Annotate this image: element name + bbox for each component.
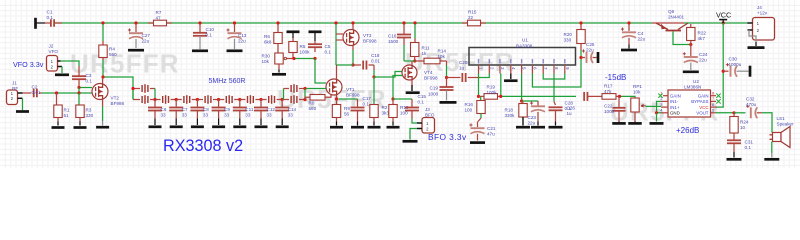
transistor VT3 <box>343 30 359 46</box>
svg-text:100k: 100k <box>487 90 498 95</box>
ground R9 <box>330 126 343 129</box>
svg-text:BFO: BFO <box>425 113 435 118</box>
ground R1 <box>52 126 65 129</box>
crystal ZQ series 6 <box>261 99 267 101</box>
node junction R4 top <box>101 21 104 24</box>
resistor R10 <box>392 99 394 105</box>
wire Q6 base <box>673 32 691 45</box>
ground VT4 <box>406 91 420 94</box>
capacitor C30 <box>723 70 728 72</box>
svg-text:C13: C13 <box>238 33 247 38</box>
ground C4 <box>621 49 637 52</box>
svg-text:C9: C9 <box>224 107 230 112</box>
svg-text:0.1: 0.1 <box>565 106 572 111</box>
op-amp U1 BA3308 <box>469 48 576 66</box>
svg-text:GAIN: GAIN <box>670 93 681 98</box>
terminal C30 <box>749 66 752 77</box>
svg-text:R4: R4 <box>109 47 115 52</box>
svg-text:C24: C24 <box>699 52 708 57</box>
svg-text:33: 33 <box>267 113 273 118</box>
ground C9 <box>212 125 225 128</box>
node junction U2 gnd <box>655 111 658 114</box>
capacitor C32 <box>750 107 752 118</box>
svg-text:C21: C21 <box>487 126 496 131</box>
trimmer R30 <box>275 53 283 64</box>
svg-text:33: 33 <box>203 113 209 118</box>
wire VT1 drain <box>336 65 338 79</box>
wire VT2 source to ground <box>102 100 104 107</box>
svg-text:J1: J1 <box>12 80 17 85</box>
svg-text:22u: 22u <box>638 37 646 42</box>
pin 2 U2 <box>661 100 668 102</box>
resistor R8 <box>305 97 310 99</box>
resistor R1 <box>56 93 58 105</box>
crystal ZQ series 4 <box>219 99 225 101</box>
node junction VT4 drain <box>413 59 416 62</box>
ground C13 <box>227 49 243 52</box>
ground J2 <box>55 73 69 76</box>
ground C12 <box>255 125 268 128</box>
ground inverted R5 <box>287 30 300 33</box>
pin 1 U1 <box>478 65 480 74</box>
svg-text:VOUT: VOUT <box>696 111 709 116</box>
terminal C25 <box>597 52 600 63</box>
svg-text:J4: J4 <box>757 5 762 10</box>
svg-text:33: 33 <box>245 113 251 118</box>
svg-text:C12: C12 <box>267 107 276 112</box>
svg-text:VFO 3.3v: VFO 3.3v <box>13 60 44 69</box>
ground C21 <box>470 141 485 144</box>
ground R3 <box>74 126 87 129</box>
wire bias to filter input <box>105 77 134 100</box>
svg-text:1u: 1u <box>459 66 465 71</box>
svg-text:U1: U1 <box>522 38 528 43</box>
svg-text:R11: R11 <box>422 46 431 51</box>
pin 5 U1 <box>521 65 523 74</box>
svg-text:J3: J3 <box>425 107 430 112</box>
node junction filter 2 <box>175 98 178 101</box>
node junction R11 top <box>413 21 416 24</box>
svg-text:0.1: 0.1 <box>418 100 425 105</box>
capacitor C15 <box>393 98 412 100</box>
node junction R20 top <box>579 21 582 24</box>
svg-text:330k: 330k <box>505 113 516 118</box>
svg-text:R30: R30 <box>262 54 271 59</box>
svg-text:100: 100 <box>465 107 473 112</box>
svg-text:33: 33 <box>288 113 294 118</box>
svg-text:C15: C15 <box>418 94 427 99</box>
wire signal to VT2 <box>42 92 92 94</box>
ground C8 <box>191 125 204 128</box>
wire bias node <box>295 58 315 60</box>
pin 9 U1 <box>564 65 566 74</box>
pin 8 U1 <box>553 65 555 74</box>
capacitor C27 <box>135 24 137 32</box>
svg-text:47u: 47u <box>487 132 495 137</box>
svg-text:C10: C10 <box>206 27 215 32</box>
capacitor C23 <box>522 100 538 102</box>
resistor R15 <box>468 20 481 26</box>
svg-text:C19: C19 <box>430 86 439 91</box>
svg-text:C16: C16 <box>388 34 397 39</box>
wire VT2 gate2 <box>81 87 93 89</box>
svg-text:LM386N: LM386N <box>684 85 701 90</box>
ground C24 <box>683 70 699 73</box>
svg-text:IN1+: IN1+ <box>670 105 680 110</box>
svg-text:R15: R15 <box>468 10 477 15</box>
svg-text:RF: RF <box>12 86 18 91</box>
wire C32 to speaker <box>762 113 772 133</box>
svg-text:C1: C1 <box>47 10 53 15</box>
svg-text:22u: 22u <box>586 48 594 53</box>
svg-text:GND: GND <box>670 111 680 116</box>
svg-text:C7: C7 <box>182 107 188 112</box>
wire VT3 drain <box>352 24 354 30</box>
svg-text:BF998: BF998 <box>111 101 125 106</box>
svg-text:BFO 3.3v: BFO 3.3v <box>428 132 467 142</box>
svg-text:R16: R16 <box>465 102 474 107</box>
svg-text:2N4401: 2N4401 <box>668 15 685 20</box>
svg-text:R5: R5 <box>300 44 306 49</box>
wire VOUT <box>716 112 735 114</box>
svg-text:C8: C8 <box>203 107 209 112</box>
ground LS1 <box>764 158 779 161</box>
svg-text:0.1: 0.1 <box>206 33 213 38</box>
svg-text:0.1: 0.1 <box>363 102 370 107</box>
svg-text:VCC: VCC <box>716 11 731 20</box>
svg-text:0.1: 0.1 <box>325 50 332 55</box>
svg-text:33: 33 <box>182 113 188 118</box>
svg-text:1u: 1u <box>567 111 573 116</box>
ground C26 <box>549 126 563 129</box>
wire J2 pin2 to ground <box>58 66 63 68</box>
svg-text:BA3308: BA3308 <box>516 43 533 48</box>
connector J4 <box>753 18 775 41</box>
svg-text:VT4: VT4 <box>424 70 433 75</box>
svg-text:R6: R6 <box>264 34 270 39</box>
wire filter top row <box>133 88 140 90</box>
capacitor C4 <box>628 24 630 31</box>
capacitor C9 <box>218 100 220 108</box>
svg-text:BF998: BF998 <box>363 39 377 44</box>
speaker LS1 <box>770 135 773 140</box>
pin 4 U1 <box>510 65 512 74</box>
ground C31 <box>727 158 742 161</box>
svg-text:470u: 470u <box>746 102 757 107</box>
capacitor C13 <box>234 24 236 32</box>
resistor R14 <box>415 60 424 62</box>
node junction R10 C15 <box>391 97 394 100</box>
svg-text:R9: R9 <box>344 106 350 111</box>
svg-text:10k: 10k <box>633 89 641 94</box>
resistor R11 <box>414 24 416 39</box>
crystal ZQ bottom-right <box>291 95 297 104</box>
wire U2 IN1- GND tie to ground <box>657 101 662 112</box>
svg-text:R2: R2 <box>382 105 388 110</box>
connector J3 BFO <box>422 118 435 134</box>
svg-text:22u: 22u <box>142 39 150 44</box>
svg-text:BF998: BF998 <box>346 93 360 98</box>
node junction filter 1 <box>153 98 156 101</box>
ground inverted C5 <box>309 30 322 33</box>
svg-text:1000: 1000 <box>604 109 615 114</box>
svg-text:3k3: 3k3 <box>382 111 390 116</box>
wire J3 pin2 to ground <box>410 129 417 140</box>
crystal ZQ top-right <box>291 84 297 93</box>
svg-text:330: 330 <box>564 38 572 43</box>
transistor VT2 <box>92 84 108 100</box>
potentiometer RP1 <box>621 96 635 98</box>
svg-text:51: 51 <box>64 113 70 118</box>
wire VT2 drain <box>102 77 104 84</box>
capacitor C14 <box>281 100 283 108</box>
node junction R30 wiper <box>292 57 295 60</box>
svg-text:C23: C23 <box>528 115 537 120</box>
pin 1 U2 <box>663 95 668 97</box>
pin 7 U1 <box>542 65 544 74</box>
node junction R6 top <box>276 21 279 24</box>
node junction VT2 drain <box>101 75 104 78</box>
svg-text:1000u: 1000u <box>729 62 742 67</box>
pin 4 U2 <box>661 112 668 114</box>
wire VT3 gate bias <box>335 24 337 65</box>
wire U1 pin6 AGC <box>532 59 581 88</box>
wire filter vertical right <box>283 89 285 100</box>
svg-text:560: 560 <box>309 106 317 111</box>
wire filter output pair <box>282 99 289 101</box>
svg-text:C31: C31 <box>745 140 754 145</box>
svg-text:6k8: 6k8 <box>264 40 272 45</box>
pin 8 U2 <box>711 95 717 97</box>
node junction C27 top <box>134 21 137 24</box>
svg-text:VFO: VFO <box>49 49 59 54</box>
svg-text:BF998: BF998 <box>424 75 438 80</box>
ground J3 <box>403 140 418 143</box>
wire <box>336 64 353 66</box>
ground C19 <box>440 101 457 104</box>
capacitor C20 <box>447 77 461 79</box>
svg-text:R8: R8 <box>309 101 315 106</box>
svg-text:C32: C32 <box>746 97 755 102</box>
resistor R17 <box>602 94 616 100</box>
svg-text:0.1: 0.1 <box>745 145 752 150</box>
ground RP1 <box>628 122 642 125</box>
wire VT1 gate1 <box>307 88 327 90</box>
svg-text:C28: C28 <box>565 101 574 106</box>
resistor R3 <box>78 93 80 105</box>
svg-text:10: 10 <box>740 125 746 130</box>
wire to VT1 gate2 <box>315 59 326 84</box>
wire U1 pin1 to R19 <box>478 74 480 97</box>
svg-text:22: 22 <box>468 15 474 20</box>
node junction VT1 source <box>335 97 338 100</box>
capacitor C2 <box>23 92 32 94</box>
svg-text:R19: R19 <box>487 84 496 89</box>
node junction R3 <box>77 91 80 94</box>
transistor VT1 <box>326 79 342 95</box>
connector J1 RF <box>7 90 18 105</box>
crystal ZQ top-left <box>142 84 148 93</box>
svg-text:56: 56 <box>344 112 350 117</box>
svg-text:RX3308 v2: RX3308 v2 <box>163 137 243 155</box>
node junction filter out bottom <box>303 98 306 101</box>
svg-text:10k: 10k <box>438 54 446 59</box>
svg-text:10k: 10k <box>262 59 270 64</box>
svg-text:IN1-: IN1- <box>670 99 679 104</box>
node junction VT3 source C18 <box>351 63 354 66</box>
svg-text:R3: R3 <box>86 108 92 113</box>
svg-text:R24: R24 <box>740 120 749 125</box>
crystal ZQ series 3 <box>197 99 203 101</box>
svg-text:33: 33 <box>224 113 230 118</box>
resistor R4 <box>102 24 104 41</box>
crystal ZQ series 5 <box>240 99 246 101</box>
svg-text:C17: C17 <box>363 96 372 101</box>
resistor R16 <box>480 96 482 100</box>
capacitor C6 <box>154 100 156 108</box>
wire VT4 source to ground <box>411 80 413 85</box>
wire VCC feed down <box>717 23 724 107</box>
ground J4 <box>748 46 765 49</box>
svg-text:0.01: 0.01 <box>32 90 41 95</box>
node junction C16 top <box>402 21 405 24</box>
node junction R1 <box>55 91 58 94</box>
svg-text:VT2: VT2 <box>111 96 120 101</box>
svg-text:R17: R17 <box>604 84 613 89</box>
wire RP1 wiper to U2 <box>646 105 662 107</box>
wire U1 pin3 to R19 <box>500 74 502 97</box>
node junction C10 top <box>198 21 201 24</box>
svg-text:GAIN: GAIN <box>698 93 709 98</box>
node junction C3 VT2 gate2 <box>77 86 80 89</box>
node junction VCC symbol <box>722 21 725 24</box>
wire <box>37 22 46 24</box>
ground C7 <box>170 125 183 128</box>
svg-text:33: 33 <box>161 113 167 118</box>
node junction C4 top <box>627 21 630 24</box>
svg-text:C5: C5 <box>325 44 331 49</box>
resistor R18 <box>522 101 524 104</box>
node junction R17 C22 RP1 <box>618 95 621 98</box>
svg-text:47k: 47k <box>604 89 612 94</box>
capacitor C24 <box>690 45 692 57</box>
node junction filter 5 <box>238 98 241 101</box>
capacitor C5 <box>314 41 316 44</box>
node junction R20 C25 <box>579 56 582 59</box>
svg-text:22u: 22u <box>699 58 707 63</box>
wire C15 to J3 <box>412 119 417 124</box>
wire VT1 source <box>336 95 338 99</box>
op-amp U2 LM386N <box>668 90 711 117</box>
svg-text:-15dB: -15dB <box>605 73 626 82</box>
ground C11 <box>233 125 246 128</box>
svg-text:R14: R14 <box>438 49 447 54</box>
resistor R6 <box>277 24 279 33</box>
node junction C5 <box>313 57 316 60</box>
svg-text:100k: 100k <box>300 50 311 55</box>
svg-text:C18: C18 <box>371 53 380 58</box>
capacitor C26 <box>554 102 556 106</box>
node junction filter input <box>131 87 134 90</box>
node junction filter 7 <box>281 98 284 101</box>
capacitor C10 <box>199 24 201 32</box>
node junction C20 C19 <box>445 76 448 79</box>
wire U1 pin8 <box>553 74 555 102</box>
svg-text:560: 560 <box>109 52 117 57</box>
svg-text:C3: C3 <box>86 73 92 78</box>
ground C10 <box>192 49 208 52</box>
pin 6 U1 <box>531 65 533 74</box>
svg-text:0.01: 0.01 <box>371 59 380 64</box>
capacitor C7 <box>175 100 177 108</box>
wire U1 pin5 <box>521 74 523 102</box>
resistor R24 <box>733 113 735 117</box>
svg-text:22u: 22u <box>238 39 246 44</box>
node junction VT3 gate line <box>334 21 337 24</box>
wire U1 pin7 pin9 <box>543 74 565 80</box>
pin 3 U2 <box>661 106 668 108</box>
wire VT3 source <box>352 46 354 51</box>
node junction filter 3 <box>196 98 199 101</box>
ground J1 <box>16 110 29 113</box>
resistor R2 <box>373 77 375 105</box>
ground R30 <box>272 73 286 76</box>
svg-text:C14: C14 <box>288 107 297 112</box>
node junction R24 <box>732 111 735 114</box>
svg-text:1k: 1k <box>422 51 428 56</box>
svg-text:R22: R22 <box>698 31 707 36</box>
svg-text:+12v: +12v <box>757 11 768 16</box>
transistor Q6 <box>652 22 666 24</box>
svg-text:0.1: 0.1 <box>47 15 54 20</box>
svg-text:4k7: 4k7 <box>698 36 706 41</box>
resistor R7 <box>154 20 167 26</box>
node junction VT3 drain <box>351 21 354 24</box>
wire VCC rail <box>55 22 652 24</box>
node junction filter 4 <box>217 98 220 101</box>
resistor R20 <box>580 24 582 30</box>
pin 3 U1 <box>499 65 501 74</box>
capacitor C25 <box>581 57 585 59</box>
ground C27 <box>128 49 144 52</box>
node junction filter out top <box>303 87 306 90</box>
ground R2 <box>368 126 381 129</box>
wire J1 pin2 to ground <box>22 98 24 110</box>
node junction C13 top <box>233 21 236 24</box>
svg-text:RP1: RP1 <box>633 84 642 89</box>
ground VT2 <box>96 126 109 129</box>
capacitor C11 <box>239 100 241 108</box>
ground R10 <box>387 126 400 129</box>
node junction C30 <box>722 70 725 73</box>
wire <box>404 60 415 62</box>
capacitor C8 <box>196 100 198 108</box>
capacitor C18 <box>353 64 361 66</box>
capacitor C31 <box>733 133 735 140</box>
pin 5 U2 VOUT <box>711 112 716 114</box>
svg-text:5MHz 560R: 5MHz 560R <box>209 78 246 85</box>
capacitor C22 <box>618 96 620 107</box>
wire <box>304 89 306 100</box>
wire IF line <box>502 95 576 97</box>
svg-text:1000: 1000 <box>428 91 439 96</box>
node junction filter 6 <box>259 98 262 101</box>
wire R14 right down <box>446 61 448 65</box>
connector J2 VFO <box>47 56 58 72</box>
svg-text:47: 47 <box>156 16 162 21</box>
ground C23 <box>531 126 545 129</box>
wire <box>78 88 80 94</box>
